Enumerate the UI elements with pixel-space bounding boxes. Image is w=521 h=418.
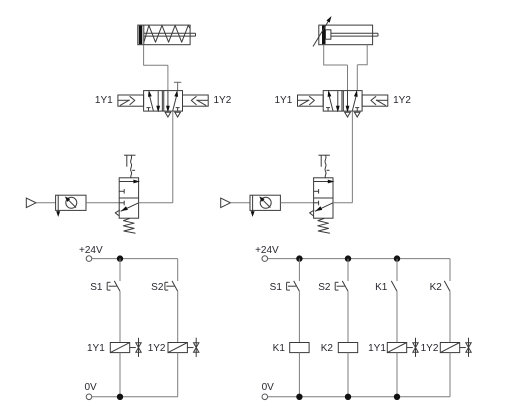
return spring of shut-off valve 0Z1 (123, 218, 135, 233)
svg-text:1Y2: 1Y2 (393, 95, 411, 106)
shut-off valve 0Z2 top box flow path (314, 180, 333, 193)
junction node left rail rung1 (117, 255, 123, 261)
svg-text:+24V: +24V (79, 245, 103, 256)
wire cylinder 2A1 left port to valve port 4 (324, 45, 348, 91)
wire source to service unit 0Z2 (230, 202, 250, 204)
svg-text:S1: S1 (90, 282, 103, 293)
5/2-way double solenoid valve 1V1 body (144, 91, 183, 112)
wire valve 1V1 port 1 supply (172, 111, 174, 203)
wire coil K1 to 0V right ladder (298, 353, 300, 397)
pushbutton S1 (NO) right ladder (287, 281, 300, 291)
relay contact K2 (NO) right ladder (444, 281, 450, 291)
label K1 coil right ladder (273, 343, 286, 354)
wire coil 1Y2 to 0V right ladder (449, 353, 451, 397)
label S1 contact right ladder (270, 282, 283, 293)
label +24V left ladder (79, 245, 103, 256)
shut-off valve 0Z2 bottom box flow path with exhaust (310, 201, 333, 216)
svg-text:S1: S1 (270, 282, 283, 293)
3/2-way shut-off valve 0Z1 body (119, 178, 138, 218)
single-acting cylinder 1A1 (138, 25, 196, 45)
svg-text:1Y2: 1Y2 (214, 95, 232, 106)
wire coil 1Y1 to 0V right ladder (396, 353, 398, 397)
wire rung S1 upper right ladder (298, 259, 300, 281)
relay contact K1 (NO) right ladder (391, 281, 397, 291)
svg-text:K1: K1 (375, 282, 388, 293)
valve link indicator 1Y1 right ladder (407, 338, 419, 357)
wire +24V rail right ladder (268, 258, 450, 260)
valve 2V1 left position flow paths (326, 91, 339, 111)
solenoid coil 1Y1 left ladder (110, 343, 129, 353)
junction node left 0V rail rung1 (117, 394, 123, 400)
pushbutton S2 (NO) (165, 281, 178, 291)
svg-text:1Y1: 1Y1 (275, 95, 293, 106)
wire rung S2 upper right ladder (347, 259, 349, 281)
shut-off valve 0Z1 bottom box flow path with exhaust (115, 201, 138, 216)
wire rung S1 to coil 1Y1 (119, 291, 121, 342)
terminal 0V left ladder (86, 394, 92, 400)
wire 0V rail left ladder (92, 396, 178, 398)
manual detent actuator of shut-off valve 0Z2 (318, 155, 330, 178)
relay coil K2 right ladder (338, 343, 357, 353)
wire coil 1Y2 to 0V rail (177, 353, 179, 397)
solenoid pilot 1Y2 of valve 2V1 (362, 95, 388, 106)
manual detent actuator of shut-off valve 0Z1 (124, 155, 136, 178)
pushbutton S1 (NO) (107, 281, 120, 291)
wire rung K2 middle right ladder (449, 291, 451, 342)
junction node right rail rung2 (345, 255, 351, 261)
valve link indicator 1Y1 left ladder (130, 338, 142, 357)
label 1Y2 coil right ladder (421, 343, 439, 354)
wire +24V rail left ladder (92, 258, 178, 260)
terminal +24V right ladder (262, 256, 268, 262)
wire service unit to shut-off valve 0Z2 (280, 202, 313, 204)
svg-text:1Y1: 1Y1 (87, 343, 105, 354)
wire coil K2 to 0V right ladder (347, 353, 349, 397)
label K2 contact right ladder (430, 282, 443, 293)
label 0V right ladder (262, 382, 275, 393)
wire rung S2 middle right ladder (347, 291, 349, 342)
svg-text:0V: 0V (85, 382, 98, 393)
svg-text:0V: 0V (262, 382, 275, 393)
terminal +24V left ladder (86, 256, 92, 262)
svg-text:K2: K2 (430, 282, 443, 293)
exhaust silencer port 5 of valve 1V1 (165, 112, 171, 117)
solenoid pilot 1Y1 of valve 2V1 (298, 95, 324, 106)
label K1 contact right ladder (375, 282, 388, 293)
plug on port 2 of valve 1V1 (174, 82, 181, 90)
compressed air source 0Z1 (26, 198, 36, 208)
exhaust silencer port 3 of valve 2V1 (354, 112, 360, 117)
5/2-way double solenoid valve 2V1 body (323, 91, 362, 112)
wire coil 1Y1 to 0V rail (119, 353, 121, 397)
label 1Y2 left ladder (148, 343, 166, 354)
svg-text:1Y1: 1Y1 (95, 95, 113, 106)
valve 1V1 right position flow paths (167, 91, 180, 111)
svg-text:K2: K2 (321, 343, 334, 354)
junction node right 0V rail rung1 (296, 394, 302, 400)
svg-text:1Y1: 1Y1 (368, 343, 386, 354)
solenoid coil 1Y2 left ladder (168, 343, 187, 353)
shut-off valve 0Z1 top box flow path (119, 180, 138, 193)
exhaust silencer port 5 of valve 2V1 (345, 112, 351, 117)
wire cylinder 2A1 right port to valve port 2 (357, 45, 367, 91)
compressed air source 0Z2 (221, 198, 231, 208)
return spring of shut-off valve 0Z2 (318, 218, 330, 233)
relay coil K1 right ladder (290, 343, 309, 353)
wire rung S1 upper (119, 259, 121, 281)
label 1Y1 left ladder (87, 343, 105, 354)
wire shut-off valve 0Z2 to supply riser (333, 202, 352, 204)
wire rung S2 to coil 1Y2 (177, 291, 179, 342)
wire rung K1 middle right ladder (396, 291, 398, 342)
cushioning adjustment arrow of cylinder 2A1 (313, 18, 331, 47)
wire service unit to shut-off valve 0Z1 (86, 202, 119, 204)
wire valve 2V1 port 1 supply (351, 111, 353, 203)
valve link indicator 1Y2 left ladder (187, 338, 199, 357)
solenoid coil 1Y2 right ladder (440, 343, 459, 353)
svg-text:1Y2: 1Y2 (148, 343, 166, 354)
label 1Y1 at valve 2V1 (275, 95, 293, 106)
label S1 (90, 282, 103, 293)
label 0V left ladder (85, 382, 98, 393)
return spring inside cylinder 1A1 (144, 25, 190, 42)
valve link indicator 1Y2 right ladder (460, 338, 472, 357)
svg-text:+24V: +24V (255, 245, 279, 256)
label 1Y1 coil right ladder (368, 343, 386, 354)
wire cylinder 1A1 port to valve port 4 (144, 45, 168, 91)
wire rung K1 upper right ladder (396, 259, 398, 281)
wire source to service unit 0Z1 (36, 202, 56, 204)
junction node right 0V rail rung3 (394, 394, 400, 400)
svg-text:S2: S2 (151, 282, 164, 293)
solenoid pilot 1Y2 of valve 1V1 (183, 95, 209, 106)
terminal 0V right ladder (262, 394, 268, 400)
junction node right rail rung1 (296, 255, 302, 261)
svg-text:S2: S2 (318, 282, 331, 293)
solenoid pilot 1Y1 of valve 1V1 (118, 95, 144, 106)
wire shut-off valve 0Z1 to supply riser (139, 202, 173, 204)
label 1Y2 at valve 2V1 (393, 95, 411, 106)
valve 2V1 right position flow paths (346, 91, 359, 111)
wire rung S1 middle right ladder (298, 291, 300, 342)
exhaust silencer port 3 of valve 1V1 (175, 112, 181, 117)
junction node right rail rung3 (394, 255, 400, 261)
3/2-way shut-off valve 0Z2 body (314, 178, 333, 218)
svg-text:1Y2: 1Y2 (421, 343, 439, 354)
double-acting cylinder 2A1 with adjustable cushioning (319, 25, 378, 45)
valve 1V1 left position flow paths (146, 91, 159, 111)
junction node right 0V rail rung2 (345, 394, 351, 400)
pushbutton S2 (NO) right ladder (335, 281, 348, 291)
solenoid coil 1Y1 right ladder (387, 343, 406, 353)
air service unit 0Z2 (250, 195, 280, 215)
label +24V right ladder (255, 245, 279, 256)
label S2 (151, 282, 164, 293)
label 1Y1 at valve 1V1 (95, 95, 113, 106)
label S2 contact right ladder (318, 282, 331, 293)
air service unit 0Z1 (56, 195, 86, 215)
svg-text:K1: K1 (273, 343, 286, 354)
wire rung K2 upper right ladder (449, 259, 451, 281)
wire 0V rail right ladder (268, 396, 450, 398)
label K2 coil right ladder (321, 343, 334, 354)
wire rung S2 upper (177, 259, 179, 281)
label 1Y2 at valve 1V1 (214, 95, 232, 106)
